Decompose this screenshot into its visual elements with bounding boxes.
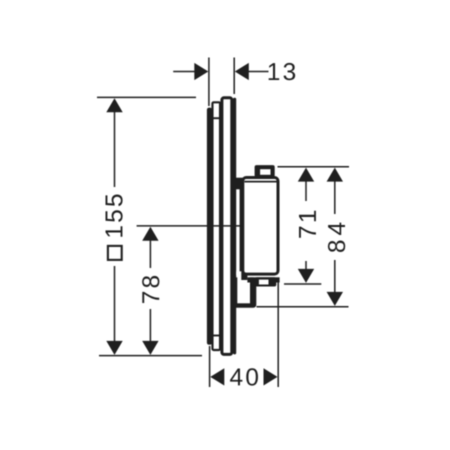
arrowheads bbox=[106, 63, 343, 386]
dim 40 right arrow (points right) bbox=[264, 368, 278, 385]
handle knob body bbox=[243, 178, 278, 275]
valve stem tube (below knob) bbox=[232, 272, 257, 308]
handle sleeve (between rosette and knob) bbox=[233, 178, 243, 276]
label 78 bbox=[142, 276, 159, 303]
dim 84 top arrow (up) bbox=[327, 168, 343, 182]
dim 71: dimension line segments bbox=[305, 181, 307, 202]
rosette right-face thickening bbox=[233, 98, 236, 355]
dim square155: dimension line segments bbox=[114, 111, 116, 187]
label 84 bbox=[328, 223, 345, 252]
dim 78: dimension line segments bbox=[149, 240, 151, 269]
dim 78 bottom arrow (down) bbox=[142, 341, 158, 355]
dim square155: extension lines bbox=[97, 96, 196, 98]
dim 71: bottom extension line bbox=[284, 283, 321, 285]
dim 78 top arrow (up) bbox=[142, 227, 158, 241]
wall seal bar (plate back layer) bbox=[207, 108, 212, 345]
dim 71/84: top extension line bbox=[278, 166, 350, 168]
bottom cap bar (under knob, front side) bbox=[247, 277, 279, 282]
dim 40: extension lines bbox=[209, 346, 211, 387]
dim 78: extension line bbox=[137, 225, 241, 227]
dim 13 left arrow (points right) bbox=[194, 63, 208, 80]
dim 84 bottom arrow (down) bbox=[327, 292, 343, 306]
label 155 bbox=[106, 195, 123, 237]
dim 84: bottom extension line bbox=[257, 306, 349, 308]
top button (on knob) bbox=[255, 165, 275, 177]
plate middle column (seal ring) bbox=[211, 102, 220, 350]
dim 40 left arrow (points left) bbox=[210, 368, 224, 385]
dim 71 bottom arrow (down) bbox=[298, 269, 314, 283]
label 71 bbox=[299, 211, 316, 238]
bottom button (under knob) bbox=[255, 277, 276, 286]
knob back connector (left of bottom cap) bbox=[241, 270, 247, 280]
plate front column (155x155 rosette, side view) bbox=[222, 98, 232, 355]
label 40 bbox=[230, 368, 258, 385]
dim 71 top arrow (up) bbox=[298, 168, 314, 182]
dim 13: extension lines bbox=[208, 58, 210, 107]
dim 13: arrow tails bbox=[173, 71, 195, 73]
label 13 bbox=[269, 63, 296, 80]
dim square155 bottom arrow (down) bbox=[106, 341, 122, 355]
dim 13 right arrow (points left) bbox=[235, 63, 249, 80]
label square symbol of 155 bbox=[108, 246, 122, 260]
dim 84: dimension line segments bbox=[334, 181, 336, 215]
dim square155 top arrow (up) bbox=[106, 98, 122, 112]
